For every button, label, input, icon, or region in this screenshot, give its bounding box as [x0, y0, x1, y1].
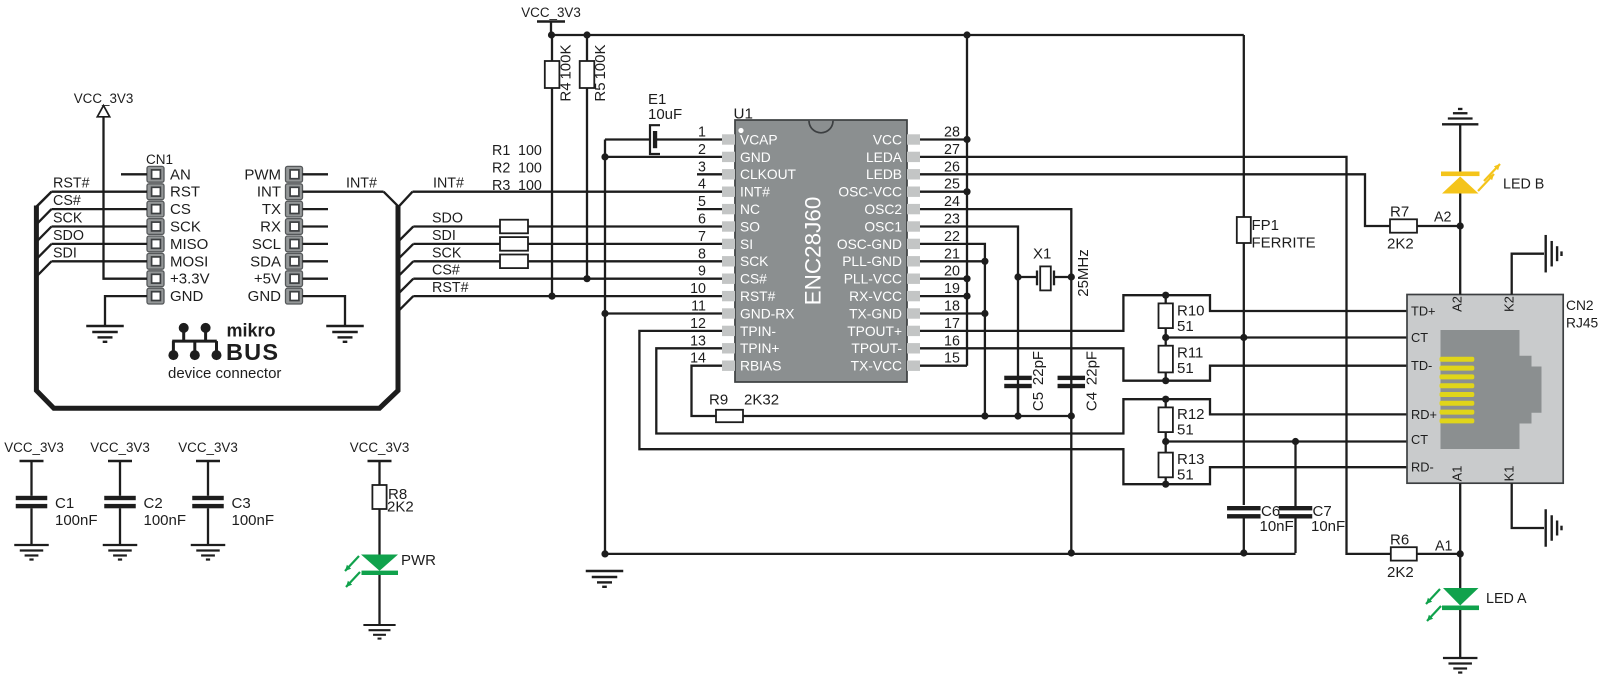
svg-text:SDI: SDI — [432, 228, 456, 244]
svg-text:OSC2: OSC2 — [864, 202, 902, 217]
svg-text:GND: GND — [740, 150, 771, 165]
svg-text:16: 16 — [944, 333, 960, 349]
svg-text:R13: R13 — [1177, 451, 1205, 468]
svg-text:22pF: 22pF — [1030, 351, 1047, 385]
svg-text:+3.3V: +3.3V — [170, 271, 210, 288]
svg-text:PLL-GND: PLL-GND — [842, 254, 902, 269]
svg-text:28: 28 — [944, 125, 960, 141]
svg-text:R12: R12 — [1177, 406, 1205, 423]
svg-text:R1: R1 — [492, 143, 510, 159]
svg-text:26: 26 — [944, 159, 960, 175]
svg-text:2K32: 2K32 — [744, 392, 779, 409]
svg-text:LEDB: LEDB — [866, 167, 902, 182]
svg-text:10: 10 — [690, 281, 706, 297]
svg-text:CS#: CS# — [432, 263, 460, 279]
svg-text:OSC-GND: OSC-GND — [837, 237, 902, 252]
svg-text:TPOUT+: TPOUT+ — [847, 324, 902, 339]
svg-text:VCC_3V3: VCC_3V3 — [350, 440, 410, 455]
svg-text:C4: C4 — [1084, 392, 1101, 411]
svg-text:SI: SI — [740, 237, 753, 252]
svg-text:R3: R3 — [492, 178, 510, 194]
svg-text:24: 24 — [944, 194, 960, 210]
svg-text:RD+: RD+ — [1411, 407, 1437, 422]
svg-text:K1: K1 — [1502, 466, 1517, 482]
svg-text:+5V: +5V — [254, 271, 281, 288]
svg-text:PWR: PWR — [401, 552, 436, 569]
svg-text:22: 22 — [944, 229, 960, 245]
svg-text:27: 27 — [944, 142, 960, 158]
svg-text:TX-VCC: TX-VCC — [851, 359, 902, 374]
svg-text:VCC_3V3: VCC_3V3 — [521, 5, 581, 20]
svg-text:RST#: RST# — [53, 176, 90, 192]
svg-text:CN1: CN1 — [146, 152, 173, 167]
svg-text:20: 20 — [944, 264, 960, 280]
svg-text:TPIN+: TPIN+ — [740, 341, 779, 356]
svg-text:LEDA: LEDA — [866, 150, 903, 165]
svg-text:RBIAS: RBIAS — [740, 359, 781, 374]
svg-text:RX-VCC: RX-VCC — [849, 289, 902, 304]
svg-text:RST#: RST# — [432, 280, 469, 296]
svg-text:VCC_3V3: VCC_3V3 — [4, 440, 64, 455]
svg-text:2: 2 — [698, 142, 706, 158]
svg-text:RST#: RST# — [740, 289, 776, 304]
svg-text:100nF: 100nF — [144, 512, 187, 529]
svg-text:8: 8 — [698, 246, 706, 262]
svg-text:14: 14 — [690, 351, 706, 367]
svg-text:R10: R10 — [1177, 303, 1205, 320]
svg-text:51: 51 — [1177, 360, 1194, 377]
svg-text:25MHz: 25MHz — [1075, 249, 1092, 297]
svg-text:TD+: TD+ — [1411, 304, 1436, 319]
svg-text:18: 18 — [944, 299, 960, 315]
svg-text:R5: R5 — [592, 82, 609, 101]
svg-text:TX: TX — [262, 201, 281, 218]
svg-text:10nF: 10nF — [1260, 518, 1294, 535]
svg-text:100nF: 100nF — [232, 512, 275, 529]
svg-text:ENC28J60: ENC28J60 — [801, 197, 826, 306]
svg-text:SCL: SCL — [252, 236, 281, 253]
svg-text:A2: A2 — [1434, 210, 1452, 226]
svg-text:100: 100 — [518, 160, 542, 176]
svg-text:C5: C5 — [1030, 392, 1047, 411]
svg-text:A1: A1 — [1450, 466, 1465, 482]
svg-text:100: 100 — [518, 143, 542, 159]
svg-text:51: 51 — [1177, 467, 1194, 484]
svg-text:12: 12 — [690, 316, 706, 332]
svg-text:SCK: SCK — [432, 245, 462, 261]
svg-text:TX-GND: TX-GND — [849, 306, 902, 321]
svg-text:1: 1 — [698, 125, 706, 141]
svg-text:100: 100 — [518, 178, 542, 194]
svg-text:VCC: VCC — [873, 132, 902, 147]
svg-text:SO: SO — [740, 219, 760, 234]
svg-text:3: 3 — [698, 159, 706, 175]
svg-text:10nF: 10nF — [1311, 518, 1345, 535]
svg-text:A1: A1 — [1435, 539, 1453, 555]
svg-text:VCC_3V3: VCC_3V3 — [178, 440, 238, 455]
svg-text:VCAP: VCAP — [740, 132, 778, 147]
svg-text:SDO: SDO — [53, 228, 84, 244]
svg-text:MOSI: MOSI — [170, 253, 208, 270]
svg-text:X1: X1 — [1033, 246, 1051, 263]
svg-text:CS: CS — [170, 201, 191, 218]
svg-text:23: 23 — [944, 212, 960, 228]
svg-text:9: 9 — [698, 264, 706, 280]
svg-text:RJ45: RJ45 — [1566, 316, 1599, 331]
svg-text:CT: CT — [1411, 432, 1428, 447]
svg-text:SCK: SCK — [53, 211, 83, 227]
svg-text:BUS: BUS — [226, 339, 279, 365]
svg-text:R4: R4 — [558, 82, 575, 101]
svg-text:4: 4 — [698, 177, 706, 193]
svg-text:RX: RX — [260, 219, 281, 236]
svg-text:R6: R6 — [1390, 532, 1409, 549]
svg-text:mikro: mikro — [227, 321, 276, 341]
svg-text:CS#: CS# — [53, 193, 81, 209]
svg-text:FERRITE: FERRITE — [1252, 235, 1316, 252]
svg-text:AN: AN — [170, 166, 191, 183]
svg-text:2K2: 2K2 — [387, 499, 414, 516]
svg-text:17: 17 — [944, 316, 960, 332]
svg-text:PWM: PWM — [244, 166, 281, 183]
svg-text:MISO: MISO — [170, 236, 208, 253]
svg-text:A2: A2 — [1450, 296, 1465, 312]
svg-text:RD-: RD- — [1411, 460, 1434, 475]
svg-text:22pF: 22pF — [1084, 351, 1101, 385]
svg-text:7: 7 — [698, 229, 706, 245]
svg-text:OSC-VCC: OSC-VCC — [838, 185, 902, 200]
svg-text:5: 5 — [698, 194, 706, 210]
svg-text:LED A: LED A — [1486, 591, 1527, 607]
svg-text:INT: INT — [257, 184, 281, 201]
svg-text:2K2: 2K2 — [1387, 564, 1414, 581]
svg-text:TD-: TD- — [1411, 358, 1432, 373]
svg-text:GND: GND — [248, 288, 282, 305]
svg-text:INT#: INT# — [740, 185, 770, 200]
svg-text:15: 15 — [944, 351, 960, 367]
svg-text:OSC1: OSC1 — [864, 219, 902, 234]
svg-text:NC: NC — [740, 202, 760, 217]
svg-text:SDI: SDI — [53, 245, 77, 261]
svg-text:SCK: SCK — [740, 254, 769, 269]
svg-text:CT: CT — [1411, 330, 1428, 345]
svg-text:SCK: SCK — [170, 219, 201, 236]
svg-text:FP1: FP1 — [1252, 217, 1280, 234]
svg-text:GND-RX: GND-RX — [740, 306, 794, 321]
svg-text:PLL-VCC: PLL-VCC — [844, 272, 902, 287]
svg-text:INT#: INT# — [346, 176, 377, 192]
svg-text:CLKOUT: CLKOUT — [740, 167, 797, 182]
svg-text:GND: GND — [170, 288, 204, 305]
svg-text:51: 51 — [1177, 318, 1194, 335]
svg-text:10uF: 10uF — [648, 106, 682, 123]
svg-text:19: 19 — [944, 281, 960, 297]
svg-text:SDA: SDA — [250, 253, 281, 270]
svg-text:13: 13 — [690, 333, 706, 349]
svg-text:TPOUT-: TPOUT- — [851, 341, 902, 356]
svg-text:U1: U1 — [734, 106, 753, 123]
svg-text:RST: RST — [170, 184, 200, 201]
svg-text:25: 25 — [944, 177, 960, 193]
svg-text:51: 51 — [1177, 422, 1194, 439]
svg-text:LED B: LED B — [1503, 177, 1544, 193]
svg-text:VCC_3V3: VCC_3V3 — [90, 440, 150, 455]
svg-text:100nF: 100nF — [55, 512, 98, 529]
svg-text:CS#: CS# — [740, 272, 767, 287]
svg-text:R11: R11 — [1177, 345, 1203, 362]
svg-text:100K: 100K — [592, 44, 609, 79]
svg-text:C1: C1 — [55, 495, 74, 512]
svg-text:21: 21 — [944, 246, 960, 262]
svg-text:2K2: 2K2 — [1387, 236, 1414, 253]
svg-text:INT#: INT# — [433, 176, 464, 192]
svg-text:device connector: device connector — [168, 365, 281, 382]
svg-text:TPIN-: TPIN- — [740, 324, 776, 339]
svg-text:100K: 100K — [558, 44, 575, 79]
svg-text:R2: R2 — [492, 160, 510, 176]
svg-text:11: 11 — [691, 299, 706, 315]
svg-text:SDO: SDO — [432, 211, 463, 227]
svg-text:6: 6 — [698, 212, 706, 228]
svg-text:K2: K2 — [1502, 296, 1517, 312]
svg-text:C2: C2 — [144, 495, 163, 512]
svg-text:R9: R9 — [709, 392, 728, 409]
svg-text:R7: R7 — [1390, 204, 1409, 221]
svg-text:C3: C3 — [232, 495, 251, 512]
svg-text:CN2: CN2 — [1566, 298, 1594, 313]
